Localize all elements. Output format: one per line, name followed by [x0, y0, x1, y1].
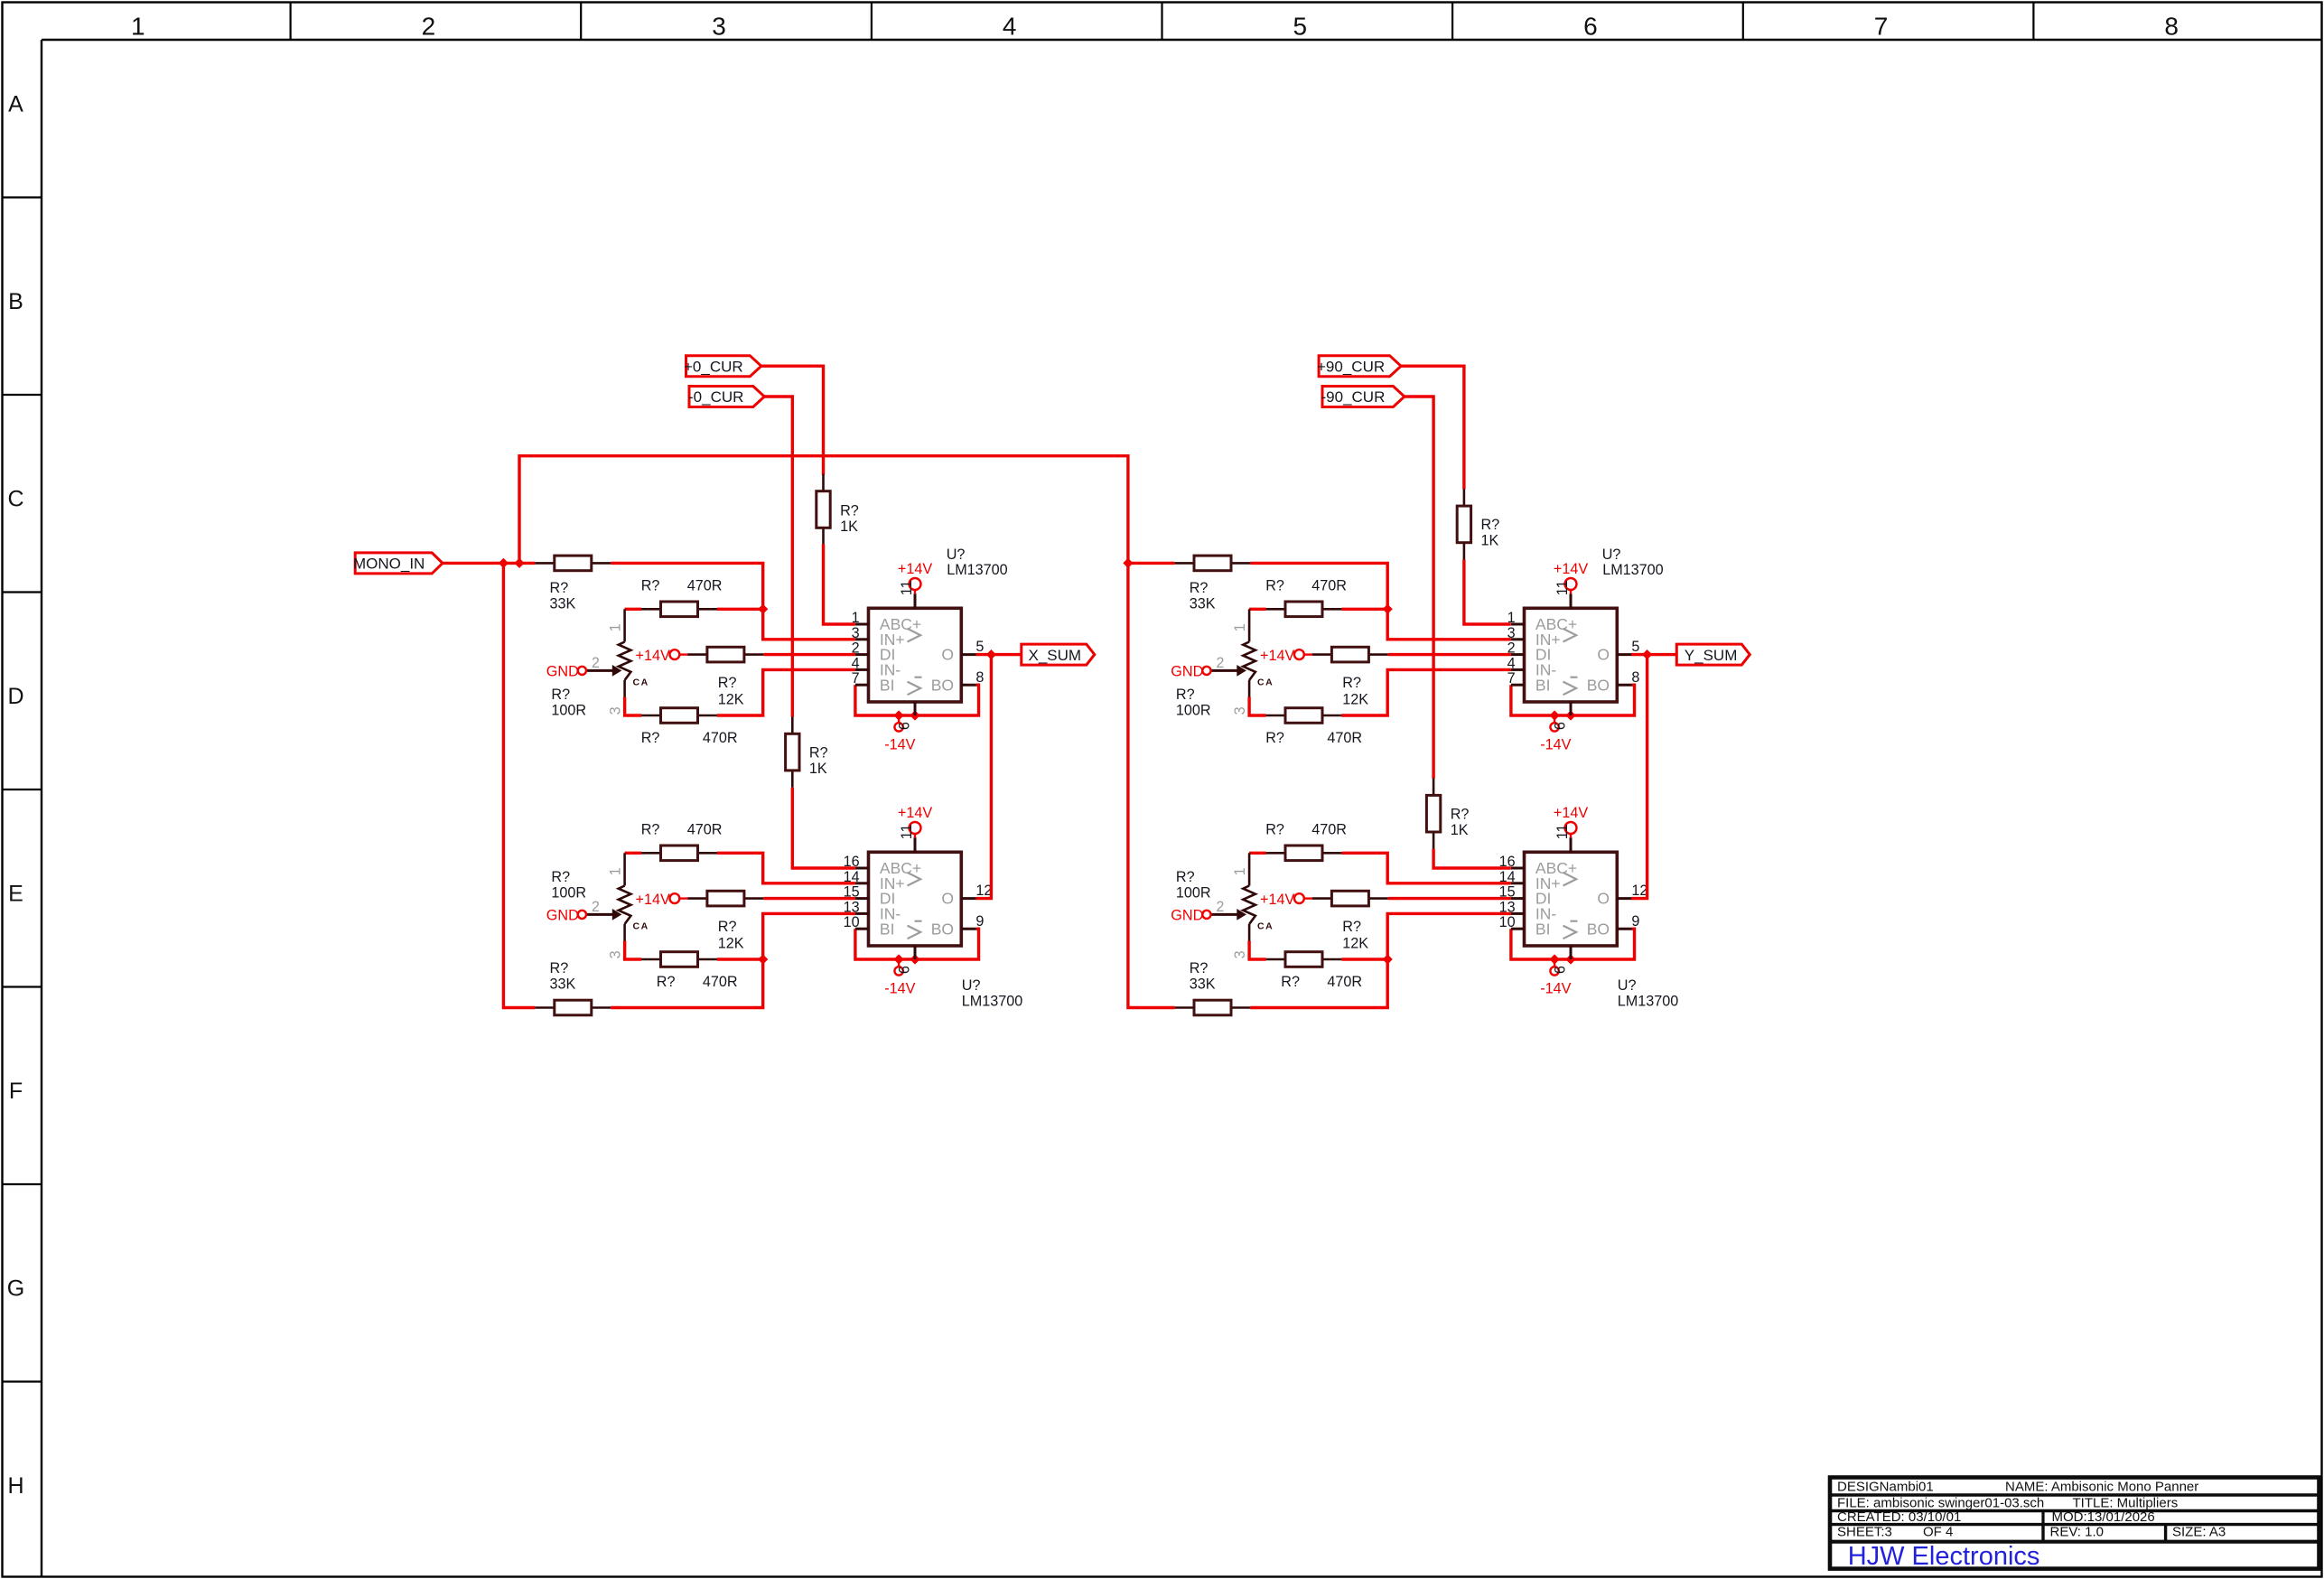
wire 33K output to IN- pin (lower-right)	[1250, 913, 1511, 1007]
wire top 470R to IN+ pin (lower-right)	[1341, 853, 1511, 883]
resistor R? 33K (lower-right)	[1175, 1006, 1194, 1009]
svg-text:470R: 470R	[687, 822, 723, 838]
resistor R? 33K (upper-right)	[1175, 562, 1194, 565]
svg-text:11: 11	[1554, 824, 1571, 839]
junction input joins bottom 470R (lower-right)	[1383, 954, 1393, 964]
svg-text:10: 10	[844, 914, 860, 930]
svg-text:15: 15	[1499, 884, 1516, 901]
wire -90_CUR down to lower 1K	[1405, 397, 1433, 779]
svg-text:3: 3	[1507, 625, 1516, 641]
svg-text:U?: U?	[1602, 547, 1621, 563]
svg-text:HJW Electronics: HJW Electronics	[1848, 1542, 2040, 1571]
svg-text:-14V: -14V	[884, 736, 915, 752]
svg-text:6: 6	[1552, 966, 1568, 974]
svg-text:8: 8	[2164, 12, 2179, 40]
wire +90_CUR to 1K resistor	[1401, 366, 1464, 489]
wire pot pin3 to bottom 470R (lower-right)	[1249, 941, 1266, 960]
resistor R? 470R top (upper-right)	[1266, 608, 1285, 611]
pin 6 stub with -14V supply (lower-left)	[914, 946, 917, 959]
wire -0_CUR down to lower 1K	[764, 397, 792, 717]
junction right input node	[1123, 558, 1133, 568]
svg-text:1K: 1K	[1481, 533, 1499, 549]
svg-text:14: 14	[844, 869, 860, 885]
junction pin 6 on loop (lower-right)	[1565, 954, 1575, 964]
svg-text:12K: 12K	[1342, 691, 1368, 707]
svg-text:2: 2	[422, 12, 436, 40]
net label MONO_IN	[355, 553, 443, 574]
IC pin stubs left (lower-right)	[1511, 867, 1525, 870]
svg-text:3: 3	[1232, 706, 1248, 715]
svg-text:CREATED: 03/10/01: CREATED: 03/10/01	[1837, 1509, 1961, 1525]
svg-text:-14V: -14V	[1540, 980, 1571, 996]
svg-text:100R: 100R	[551, 702, 586, 718]
svg-text:12K: 12K	[718, 935, 744, 951]
wire 1K to ABC+ pin 16 lower-left	[792, 788, 855, 868]
svg-text:R?: R?	[550, 580, 569, 596]
wire 33K output to IN+ pin (upper-right)	[1250, 563, 1511, 639]
pin 6 stub with -14V supply (upper-left)	[914, 702, 917, 715]
op-amp U? LM13700 (lower-right)	[1525, 852, 1618, 946]
svg-text:R?: R?	[840, 503, 859, 519]
svg-text:470R: 470R	[703, 730, 738, 746]
wire Y_SUM to pin 12 lower-right	[1631, 655, 1647, 899]
wire top 470R to junction (upper-right)	[1341, 608, 1387, 611]
svg-text:R?: R?	[1265, 822, 1284, 838]
junction pin 6 on loop (lower-left)	[910, 954, 919, 964]
svg-text:+14V: +14V	[898, 561, 932, 577]
wire pot pin3 to bottom 470R (upper-right)	[1249, 697, 1266, 716]
resistor R? 12K (lower-left)	[688, 897, 707, 900]
pin 11 stub with +14V supply (upper-right)	[1570, 593, 1573, 608]
svg-text:6: 6	[1583, 12, 1598, 40]
svg-text:O: O	[1597, 646, 1610, 664]
IC pin stub O output (upper-right)	[1617, 653, 1632, 656]
svg-text:5: 5	[975, 639, 984, 655]
wire upper 33K input from junction	[519, 562, 535, 565]
svg-text:FILE: ambisonic swinger01-03.s: FILE: ambisonic swinger01-03.sch	[1837, 1496, 2044, 1511]
svg-text:H: H	[7, 1473, 23, 1499]
IC pin stub BO output (upper-right)	[1617, 684, 1632, 687]
wire 12K to DI pin (lower-left)	[763, 897, 855, 900]
svg-text:-14V: -14V	[1540, 736, 1571, 752]
svg-text:LM13700: LM13700	[947, 562, 1008, 578]
svg-text:14: 14	[1499, 869, 1516, 885]
svg-text:R?: R?	[641, 578, 660, 594]
pin 11 stub with +14V supply (upper-left)	[914, 593, 917, 608]
svg-text:R?: R?	[1281, 974, 1300, 990]
svg-text:8: 8	[975, 669, 984, 686]
svg-text:R?: R?	[641, 822, 660, 838]
amp symbol upper (lower-right)	[1563, 873, 1577, 886]
wire pot pin1 to top 470R (upper-right)	[1249, 608, 1266, 611]
svg-text:33K: 33K	[1190, 976, 1216, 993]
svg-text:OF 4: OF 4	[1923, 1525, 1953, 1540]
junction input joins top 470R (upper-right)	[1383, 604, 1393, 614]
wire right upper 33K input	[1128, 562, 1175, 565]
svg-text:4: 4	[1507, 655, 1516, 671]
resistor R? 1K lower-right	[1433, 779, 1435, 796]
wire MONO_IN to junction	[443, 562, 519, 565]
wire top 470R to IN+ pin (lower-left)	[717, 853, 855, 883]
potentiometer R? 100R (lower-right)	[1248, 853, 1251, 885]
wire 1K to ABC+ pin 16 lower-right	[1433, 849, 1511, 868]
resistor R? 33K (lower-left)	[535, 1006, 554, 1009]
wire BI-BO feedback loop (lower-left)	[855, 929, 979, 959]
svg-text:LM13700: LM13700	[1602, 562, 1664, 578]
wire 12K to DI pin (lower-right)	[1388, 897, 1511, 900]
IC pin stubs left (lower-left)	[855, 867, 869, 870]
svg-text:GND: GND	[1171, 663, 1203, 679]
svg-text:10: 10	[1499, 914, 1516, 930]
junction MONO rail-feed	[514, 558, 524, 568]
svg-text:MONO_IN: MONO_IN	[353, 556, 425, 573]
svg-text:R?: R?	[1265, 730, 1284, 746]
wire X_SUM output from pin 5	[976, 653, 1022, 656]
junction input joins top 470R (upper-left)	[758, 604, 768, 614]
resistor R? 470R bottom (lower-right)	[1266, 958, 1285, 961]
svg-text:13: 13	[1499, 899, 1516, 915]
op-amp U? LM13700 (upper-left)	[869, 608, 962, 702]
wire +0_CUR to 1K resistor	[761, 366, 824, 475]
svg-text:+90_CUR: +90_CUR	[1317, 358, 1385, 375]
svg-text:-90_CUR: -90_CUR	[1321, 388, 1386, 406]
svg-text:100R: 100R	[1176, 885, 1211, 902]
svg-text:SHEET:3: SHEET:3	[1837, 1525, 1892, 1540]
svg-text:6: 6	[1552, 722, 1568, 730]
amp symbol lower with minus (lower-right)	[1563, 926, 1577, 939]
amp symbol lower with minus (lower-left)	[908, 926, 921, 939]
svg-text:BI: BI	[1535, 676, 1551, 694]
IC pin stub O output (upper-left)	[961, 653, 976, 656]
svg-text:2: 2	[592, 899, 600, 915]
svg-text:13: 13	[844, 899, 860, 915]
svg-text:SIZE: A3: SIZE: A3	[2172, 1525, 2226, 1540]
svg-text:33K: 33K	[1190, 596, 1216, 612]
wire rail from MONO to right half	[519, 456, 1128, 564]
resistor R? 470R top (upper-left)	[641, 608, 660, 611]
wire pot pin1 to top 470R (lower-left)	[625, 852, 642, 855]
amp symbol upper (upper-left)	[908, 629, 921, 642]
svg-text:2: 2	[1216, 899, 1224, 915]
svg-text:1K: 1K	[1451, 822, 1469, 838]
wire 1K to ABC+ pin 1 upper-right	[1464, 560, 1511, 625]
svg-text:Y_SUM: Y_SUM	[1685, 647, 1738, 664]
wire MONO vertical to lower 33K	[503, 563, 535, 1007]
junction Y_SUM node	[1642, 649, 1652, 659]
IC pin stub O output (lower-right)	[1617, 897, 1632, 900]
svg-text:CA: CA	[1257, 677, 1274, 688]
potentiometer R? 100R (upper-right)	[1248, 609, 1251, 641]
svg-text:O: O	[941, 890, 954, 908]
resistor R? 470R bottom (lower-left)	[641, 958, 660, 961]
svg-text:+14V: +14V	[1554, 561, 1588, 577]
svg-text:2: 2	[852, 640, 860, 657]
svg-text:DESIGNambi01: DESIGNambi01	[1837, 1480, 1934, 1495]
junction -14V tap on loop (upper-right)	[1550, 710, 1560, 720]
wire right input vertical to lower 33K	[1128, 563, 1175, 1007]
svg-text:R?: R?	[1342, 675, 1361, 691]
svg-text:6: 6	[896, 722, 912, 730]
svg-text:+14V: +14V	[1260, 648, 1294, 664]
op-amp U? LM13700 (lower-left)	[869, 852, 962, 946]
svg-text:LM13700: LM13700	[1618, 993, 1679, 1009]
title block row3 divider	[2041, 1511, 2044, 1525]
svg-text:R?: R?	[551, 687, 570, 703]
potentiometer R? 100R (lower-left)	[623, 853, 626, 885]
IC pin stubs left (upper-right)	[1511, 623, 1525, 626]
svg-text:BI: BI	[880, 920, 895, 938]
net label +90_CUR	[1319, 356, 1401, 377]
svg-text:R?: R?	[550, 960, 569, 976]
svg-text:BO: BO	[1587, 920, 1610, 938]
svg-text:1K: 1K	[809, 761, 827, 777]
svg-text:470R: 470R	[687, 578, 723, 594]
resistor R? 1K upper-right	[1463, 489, 1466, 506]
svg-text:R?: R?	[1190, 960, 1209, 976]
wire X_SUM to pin 12 lower-left	[976, 655, 992, 899]
svg-text:LM13700: LM13700	[962, 993, 1023, 1009]
resistor R? 470R top (lower-left)	[641, 852, 660, 855]
svg-text:+14V: +14V	[636, 892, 670, 908]
svg-text:9: 9	[975, 913, 984, 930]
svg-text:2: 2	[592, 655, 600, 671]
amp symbol upper (upper-right)	[1563, 629, 1577, 642]
wire 1K to ABC+ pin 1 upper-left	[824, 544, 855, 624]
junction MONO down-feed	[499, 558, 509, 568]
svg-text:U?: U?	[1618, 977, 1637, 994]
svg-text:470R: 470R	[1327, 974, 1362, 990]
svg-text:D: D	[7, 684, 23, 709]
svg-text:8: 8	[1631, 669, 1639, 686]
pin 11 stub with +14V supply (lower-right)	[1570, 837, 1573, 852]
svg-text:REV: 1.0: REV: 1.0	[2050, 1525, 2104, 1540]
wire bottom 470R to IN- pin (upper-left)	[717, 669, 855, 715]
svg-text:R?: R?	[551, 869, 570, 885]
resistor R? 12K (upper-left)	[688, 653, 707, 656]
svg-text:470R: 470R	[1311, 822, 1347, 838]
svg-text:2: 2	[1216, 655, 1224, 671]
wire BI-BO feedback loop (lower-right)	[1511, 929, 1635, 959]
pin 11 stub with +14V supply (lower-left)	[914, 837, 917, 852]
pin 6 stub with -14V supply (lower-right)	[1570, 946, 1573, 959]
pin 6 stub with -14V supply (upper-right)	[1570, 702, 1573, 715]
svg-text:11: 11	[899, 824, 915, 839]
net label -90_CUR	[1322, 387, 1405, 407]
svg-text:100R: 100R	[1176, 702, 1211, 718]
resistor R? 12K (upper-right)	[1312, 653, 1331, 656]
wire BI-BO feedback loop (upper-left)	[855, 685, 979, 715]
svg-text:R?: R?	[1342, 919, 1361, 935]
svg-text:B: B	[8, 289, 23, 314]
svg-text:TITLE: Multipliers: TITLE: Multipliers	[2073, 1496, 2179, 1511]
svg-text:2: 2	[1507, 640, 1516, 657]
svg-text:E: E	[8, 882, 23, 907]
svg-text:R?: R?	[1190, 580, 1209, 596]
svg-text:BO: BO	[931, 676, 954, 694]
svg-text:MOD:13/01/2026: MOD:13/01/2026	[2052, 1509, 2155, 1525]
IC pin stub BO output (upper-left)	[961, 684, 976, 687]
svg-text:C: C	[7, 487, 23, 512]
IC pin stub BO output (lower-left)	[961, 928, 976, 930]
svg-text:BI: BI	[880, 676, 895, 694]
svg-text:CA: CA	[633, 677, 649, 688]
svg-text:U?: U?	[962, 977, 981, 994]
wire 33K output to IN- pin (lower-left)	[611, 913, 855, 1007]
svg-text:7: 7	[852, 670, 860, 687]
wire top 470R to junction (upper-left)	[717, 608, 763, 611]
svg-text:BI: BI	[1535, 920, 1551, 938]
wire pot pin1 to top 470R (upper-left)	[625, 608, 642, 611]
title block frame	[1830, 1478, 2319, 1569]
svg-text:R?: R?	[1176, 687, 1195, 703]
junction input joins bottom 470R (lower-left)	[758, 954, 768, 964]
svg-text:5: 5	[1631, 639, 1639, 655]
net label +0_CUR	[686, 356, 761, 377]
junction X_SUM node	[986, 649, 996, 659]
svg-text:470R: 470R	[703, 974, 738, 990]
resistor R? 1K lower-left	[791, 716, 794, 733]
svg-text:A: A	[8, 92, 23, 117]
border inner frame left line	[41, 40, 42, 1577]
svg-text:1: 1	[608, 867, 624, 875]
svg-text:BO: BO	[1587, 676, 1610, 694]
wire 12K to DI pin (upper-right)	[1388, 653, 1511, 656]
svg-text:GND: GND	[546, 663, 579, 679]
wire 12K to DI pin (upper-left)	[763, 653, 855, 656]
svg-text:1: 1	[131, 12, 145, 40]
svg-text:1: 1	[1232, 623, 1248, 631]
svg-text:11: 11	[899, 580, 915, 595]
title block row4 dividers	[2041, 1525, 2044, 1542]
amp symbol lower with minus (upper-right)	[1563, 682, 1577, 696]
pot wiper arrow (upper-left)	[586, 669, 612, 672]
svg-text:CA: CA	[633, 921, 649, 932]
svg-text:+14V: +14V	[1554, 805, 1588, 821]
svg-text:BO: BO	[931, 920, 954, 938]
net label -0_CUR	[689, 387, 764, 407]
wire 33K output to IN+ pin (upper-left)	[611, 563, 855, 639]
svg-text:+0_CUR: +0_CUR	[684, 358, 743, 375]
svg-text:33K: 33K	[550, 596, 576, 612]
resistor R? 1K upper-left	[822, 474, 825, 491]
svg-text:GND: GND	[546, 907, 579, 923]
svg-text:R?: R?	[641, 730, 660, 746]
svg-text:O: O	[941, 646, 954, 664]
amp symbol upper (lower-left)	[908, 873, 921, 886]
svg-text:R?: R?	[1451, 807, 1470, 823]
wire bottom 470R to junction (lower-right)	[1341, 958, 1387, 960]
svg-text:4: 4	[852, 655, 860, 671]
svg-text:9: 9	[1631, 913, 1639, 930]
svg-text:+14V: +14V	[1260, 892, 1294, 908]
svg-text:15: 15	[844, 884, 860, 901]
svg-text:R?: R?	[657, 974, 676, 990]
svg-text:O: O	[1597, 890, 1610, 908]
svg-text:R?: R?	[809, 744, 828, 761]
svg-text:4: 4	[1003, 12, 1017, 40]
wire pot pin3 to bottom 470R (upper-left)	[625, 697, 642, 716]
svg-text:R?: R?	[718, 919, 737, 935]
svg-text:3: 3	[852, 625, 860, 641]
junction pin 6 on loop (upper-left)	[910, 710, 919, 720]
net label Y_SUM	[1676, 644, 1750, 665]
svg-text:U?: U?	[947, 547, 966, 563]
resistor R? 33K (upper-left)	[535, 562, 554, 565]
title block row lines	[1830, 1493, 2319, 1496]
svg-text:GND: GND	[1171, 907, 1203, 923]
svg-text:CA: CA	[1257, 921, 1274, 932]
junction -14V tap on loop (upper-left)	[894, 710, 904, 720]
svg-text:12K: 12K	[1342, 935, 1368, 951]
svg-text:5: 5	[1293, 12, 1308, 40]
amp symbol lower with minus (upper-left)	[908, 682, 921, 696]
resistor R? 470R bottom (upper-right)	[1266, 715, 1285, 717]
border column dividers	[290, 3, 292, 41]
wire bottom 470R to IN- pin (upper-right)	[1341, 669, 1511, 715]
pot wiper arrow (lower-left)	[586, 913, 612, 916]
svg-text:11: 11	[1554, 580, 1571, 595]
svg-text:7: 7	[1874, 12, 1889, 40]
svg-text:-0_CUR: -0_CUR	[688, 388, 743, 406]
svg-text:6: 6	[896, 966, 912, 974]
wire bottom 470R to junction (lower-left)	[717, 958, 763, 960]
svg-text:F: F	[9, 1079, 23, 1104]
svg-text:3: 3	[608, 706, 624, 715]
junction -14V tap on loop (lower-right)	[1550, 954, 1560, 964]
junction pin 6 on loop (upper-right)	[1565, 710, 1575, 720]
svg-text:33K: 33K	[550, 976, 576, 993]
IC pin stub BO output (lower-right)	[1617, 928, 1632, 930]
svg-text:3: 3	[1232, 950, 1248, 958]
wire pot pin3 to bottom 470R (lower-left)	[625, 941, 642, 960]
wire BI-BO feedback loop (upper-right)	[1511, 685, 1635, 715]
svg-text:100R: 100R	[551, 885, 586, 902]
svg-text:7: 7	[1507, 670, 1516, 687]
resistor R? 12K (lower-right)	[1312, 897, 1331, 900]
border row dividers	[3, 196, 42, 198]
svg-text:X_SUM: X_SUM	[1029, 647, 1082, 664]
svg-text:R?: R?	[1481, 517, 1500, 533]
wire pot pin1 to top 470R (lower-right)	[1249, 852, 1266, 855]
border inner frame top line	[42, 39, 2322, 41]
op-amp U? LM13700 (upper-right)	[1525, 608, 1618, 702]
svg-text:R?: R?	[1176, 869, 1195, 885]
svg-text:1: 1	[1232, 867, 1248, 875]
svg-text:G: G	[7, 1276, 24, 1302]
potentiometer R? 100R (upper-left)	[623, 609, 626, 641]
svg-text:R?: R?	[1265, 578, 1284, 594]
svg-text:R?: R?	[718, 675, 737, 691]
svg-text:+14V: +14V	[898, 805, 932, 821]
svg-text:-14V: -14V	[884, 980, 915, 996]
pot wiper arrow (upper-right)	[1211, 669, 1237, 672]
svg-text:3: 3	[608, 950, 624, 958]
svg-text:1: 1	[608, 623, 624, 631]
svg-text:1K: 1K	[840, 519, 858, 535]
svg-text:12: 12	[1631, 883, 1647, 899]
pot wiper arrow (lower-right)	[1211, 913, 1237, 916]
svg-text:NAME: Ambisonic Mono Panner: NAME: Ambisonic Mono Panner	[2005, 1480, 2198, 1495]
svg-text:3: 3	[712, 12, 726, 40]
IC pin stub O output (lower-left)	[961, 897, 976, 900]
svg-text:12K: 12K	[718, 691, 744, 707]
net label X_SUM	[1022, 644, 1095, 665]
wire Y_SUM output from pin 5	[1631, 653, 1676, 656]
junction -14V tap on loop (lower-left)	[894, 954, 904, 964]
resistor R? 470R bottom (upper-left)	[641, 715, 660, 717]
resistor R? 470R top (lower-right)	[1266, 852, 1285, 855]
svg-text:+14V: +14V	[636, 648, 670, 664]
